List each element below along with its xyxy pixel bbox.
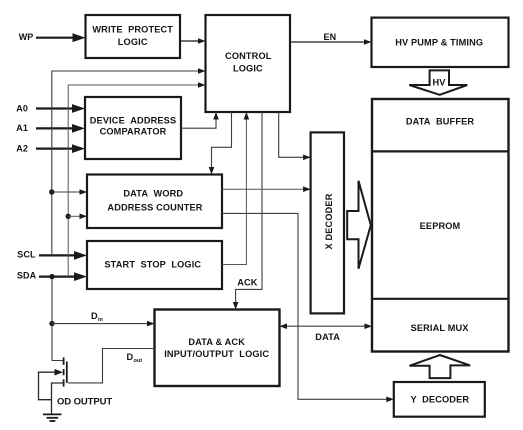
node junction on SCL riser — [49, 189, 54, 194]
svg-text:SERIAL MUX: SERIAL MUX — [411, 323, 470, 333]
wire CONTROL LOGIC to DATA WORD ADDRESS COUNTER — [209, 112, 232, 175]
svg-text:CONTROL: CONTROL — [225, 51, 272, 61]
svg-text:ADDRESS COUNTER: ADDRESS COUNTER — [107, 202, 202, 212]
svg-text:LOGIC: LOGIC — [233, 64, 263, 74]
svg-text:DATA WORD: DATA WORD — [123, 189, 183, 199]
svg-text:WRITE PROTECT: WRITE PROTECT — [92, 24, 173, 34]
wire A2 input — [36, 144, 85, 153]
wire SCL input — [39, 251, 87, 260]
transistor Q1 open-drain output MOSFET — [64, 357, 67, 386]
svg-text:DATA & ACK: DATA & ACK — [188, 337, 245, 347]
wire WRITE PROTECT to CONTROL LOGIC — [180, 38, 206, 44]
svg-text:WP: WP — [19, 32, 34, 42]
wire DEVICE ADDRESS COMPARATOR to CONTROL LOGIC — [181, 112, 219, 128]
node junction on SDA riser — [66, 214, 71, 219]
wire D out from DATA & ACK LOGIC to gate — [68, 349, 155, 383]
svg-text:X DECODER: X DECODER — [324, 193, 334, 249]
svg-text:DATA BUFFER: DATA BUFFER — [406, 116, 475, 126]
svg-text:DEVICE ADDRESS: DEVICE ADDRESS — [90, 115, 177, 125]
block START STOP LOGIC — [87, 241, 222, 289]
block DATA WORD ADDRESS COUNTER — [87, 175, 222, 229]
svg-text:A2: A2 — [16, 143, 28, 153]
net label Dout — [127, 352, 143, 364]
block HV PUMP & TIMING — [372, 18, 509, 67]
svg-text:Y DECODER: Y DECODER — [410, 395, 469, 405]
svg-text:ACK: ACK — [237, 278, 258, 288]
svg-text:HV PUMP & TIMING: HV PUMP & TIMING — [395, 37, 483, 47]
wire DATA WORD ADDRESS COUNTER to X DECODER — [222, 186, 311, 192]
node junction SDA line — [49, 274, 54, 279]
wire substrate tie with arrow — [39, 369, 64, 400]
block DATA & ACK INPUT/OUTPUT LOGIC — [155, 310, 280, 387]
svg-text:in: in — [98, 317, 104, 323]
block DEVICE ADDRESS COMPARATOR — [85, 97, 181, 159]
wire SCL riser branch to DATA WORD ADDRESS COUNTER — [52, 189, 87, 195]
wire Y DECODER block arrow to SERIAL MUX — [409, 355, 470, 378]
block WRITE PROTECT LOGIC — [86, 15, 181, 58]
wire D in to DATA & ACK LOGIC — [52, 321, 155, 327]
wire ACK from CONTROL LOGIC to DATA & ACK LOGIC — [233, 112, 262, 310]
svg-text:OD OUTPUT: OD OUTPUT — [57, 397, 112, 408]
wire drain from SDA node to transistor — [52, 324, 64, 361]
block CONTROL LOGIC — [206, 15, 291, 112]
svg-text:SDA: SDA — [17, 271, 37, 281]
wire DATA WORD ADDRESS COUNTER to Y DECODER — [222, 213, 394, 402]
wire HV block arrow from HV PUMP to DATA BUFFER — [409, 70, 467, 94]
svg-text:EN: EN — [324, 32, 337, 42]
block X DECODER — [311, 132, 344, 313]
wire SDA input — [39, 272, 87, 281]
wire SDA drop to D in junction — [51, 277, 53, 324]
wire CONTROL LOGIC to X DECODER — [279, 112, 311, 160]
wire X DECODER block arrow to EEPROM — [347, 181, 371, 269]
svg-text:out: out — [134, 358, 143, 364]
wire A0 input — [36, 104, 85, 113]
svg-text:A1: A1 — [16, 123, 28, 133]
svg-text:COMPARATOR: COMPARATOR — [100, 126, 167, 136]
svg-text:HV: HV — [433, 77, 447, 87]
wire START STOP LOGIC to CONTROL LOGIC — [222, 112, 249, 265]
wire SDA riser branch to DATA WORD ADDRESS COUNTER — [68, 214, 87, 220]
wire SCL riser to CONTROL LOGIC — [52, 68, 206, 255]
svg-text:SCL: SCL — [17, 249, 36, 259]
svg-text:DATA: DATA — [315, 332, 340, 342]
svg-text:D: D — [127, 352, 134, 362]
svg-text:EEPROM: EEPROM — [420, 221, 461, 231]
wire A1 input — [36, 124, 85, 133]
block memory column (DATA BUFFER / EEPROM / SERIAL MUX) — [372, 99, 509, 352]
ground — [43, 414, 62, 421]
wire EN — [290, 39, 372, 45]
svg-text:START STOP LOGIC: START STOP LOGIC — [104, 260, 201, 270]
svg-text:A0: A0 — [16, 103, 28, 113]
net label Din — [91, 311, 104, 323]
node junction D in — [49, 321, 54, 326]
wire source to ground — [52, 383, 64, 414]
svg-text:LOGIC: LOGIC — [118, 37, 148, 47]
svg-text:INPUT/OUTPUT LOGIC: INPUT/OUTPUT LOGIC — [164, 349, 269, 359]
wire SDA riser to CONTROL LOGIC — [68, 82, 205, 276]
svg-text:D: D — [91, 311, 98, 321]
block Y DECODER — [394, 382, 485, 417]
wire DATA bidirectional between DATA & ACK LOGIC and SERIAL MUX — [280, 323, 373, 329]
wire WP input — [36, 33, 86, 42]
